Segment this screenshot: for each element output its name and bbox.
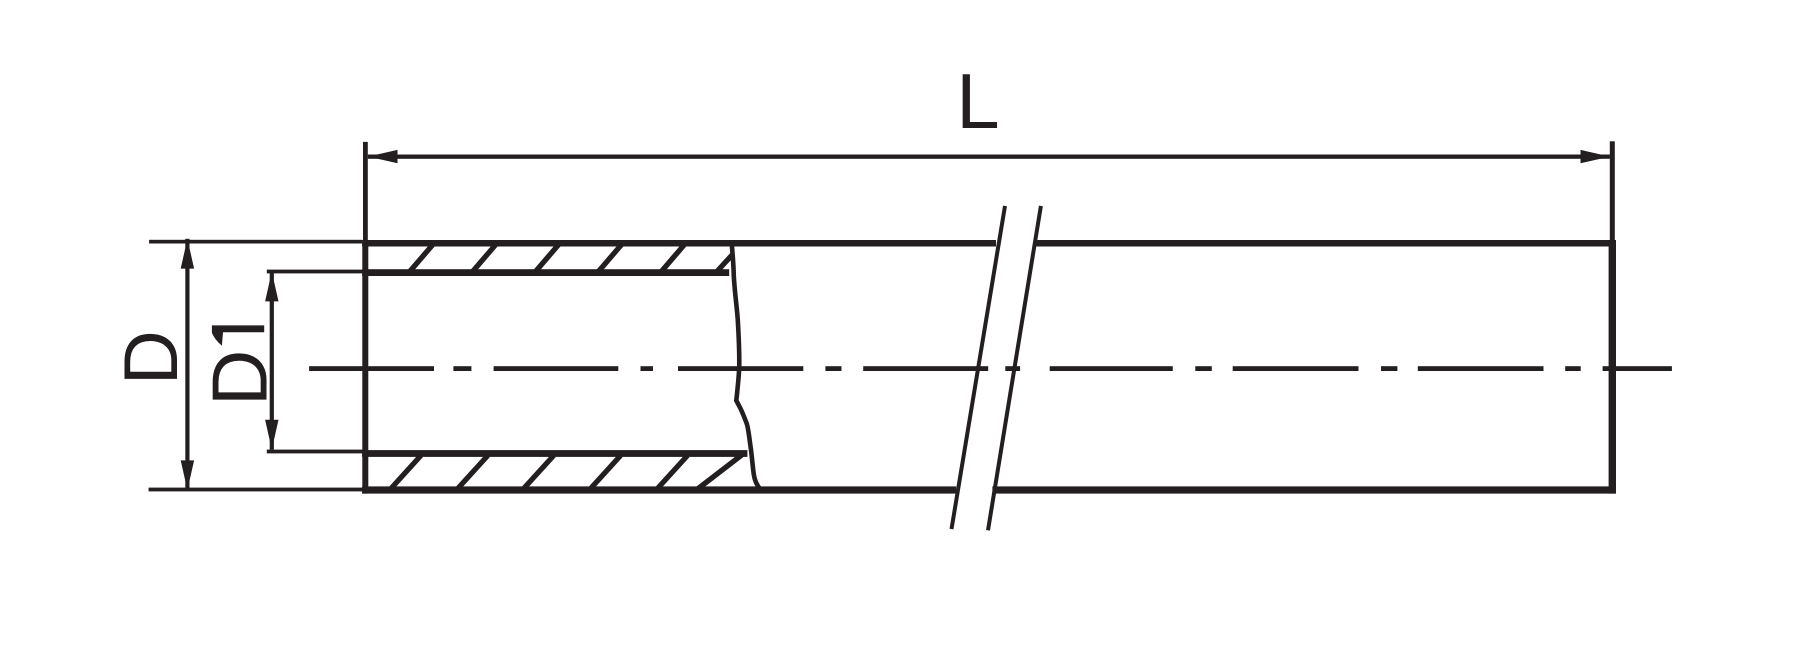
D1 dimension line [270,272,274,450]
tube inner top line [362,269,729,276]
L dimension line [368,155,1610,159]
bottom wall hatch 4 [591,456,621,489]
top wall hatch 6 (clipped by wavy line) [716,255,733,273]
D bottom arrowhead [181,460,194,490]
L right extension line [1610,141,1615,241]
svg-text:D: D [109,330,194,385]
svg-text:L: L [956,57,999,145]
tube outer top line (right of break) [1035,240,1616,247]
D1 top extension line [267,270,363,274]
top wall hatch 5 [661,244,686,273]
break line 1 [952,206,1006,529]
tube right edge [1609,240,1616,494]
bottom wall hatch 3 [524,456,554,489]
L left extension line (above tube left edge) [363,142,368,242]
bottom wall hatch 5 [658,456,688,489]
bottom wall hatch 2 [458,456,488,489]
tube outer top line (left of break) [362,240,996,247]
D bottom extension line [149,488,363,492]
top wall hatch 4 [598,244,623,273]
L right arrowhead [1581,150,1611,163]
dimension label D1: digit 1 (custom glyph, rotated) [212,325,264,345]
broken-out section wavy boundary [732,242,761,490]
bottom wall hatch 6 [698,453,745,489]
D1 top arrowhead [265,272,278,302]
top wall hatch 1 [409,244,434,273]
D dimension line [185,239,189,490]
top wall hatch 2 [472,244,497,273]
D top arrowhead [181,239,194,269]
tube inner bottom line [362,450,747,457]
L left arrowhead [368,150,398,163]
break line 2 [988,206,1041,530]
D1 bottom extension line [267,450,363,454]
top wall hatch 3 [535,244,560,273]
D top extension line [149,240,362,244]
bottom wall hatch 1 [391,456,421,489]
tube outer bottom line (left of break) [362,486,956,493]
centerline (dash-dot) [309,366,1672,371]
D1 bottom arrowhead [265,420,278,450]
tube left edge [362,240,368,494]
tube outer bottom line (right of break) [992,486,1615,493]
